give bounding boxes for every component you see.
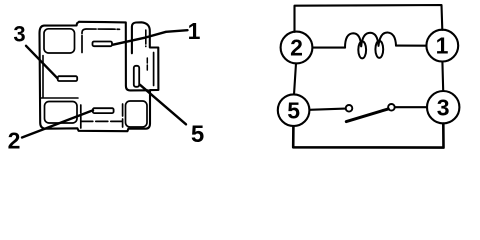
relay left arm bottom wall xyxy=(41,97,79,99)
relay case bottom-right pocket xyxy=(126,101,148,127)
wire circle5 to switch contact xyxy=(310,109,346,110)
svg-text:3: 3 xyxy=(437,94,450,120)
leader line label 2 to pin 2 xyxy=(22,110,93,137)
schematic loop bottom wire xyxy=(293,124,443,148)
schematic right wire circle1 to circle3 xyxy=(441,62,444,92)
leader line label 3 to pin 3 xyxy=(26,46,58,79)
relay bottom arm inner line xyxy=(81,104,123,128)
switch blade xyxy=(346,109,388,122)
svg-text:2: 2 xyxy=(290,35,303,61)
terminal circle 1 xyxy=(426,30,458,62)
wire switch to circle3 xyxy=(395,106,427,108)
relay top tab outline and channel right wall xyxy=(79,22,148,91)
relay coil L1 xyxy=(345,32,396,58)
svg-text:5: 5 xyxy=(191,121,204,148)
pin 3 terminal slot xyxy=(58,76,77,81)
wire coil to circle1 xyxy=(396,45,426,47)
pin 2 terminal slot xyxy=(93,108,114,113)
terminal circle 2 xyxy=(281,32,313,64)
svg-text:3: 3 xyxy=(13,22,25,47)
schematic loop top wire xyxy=(295,5,443,32)
relay left arm inner edge line xyxy=(42,56,44,98)
leader line label 1 to pin 1 xyxy=(113,30,188,45)
switch contact left xyxy=(346,105,353,112)
schematic left wire circle2 to circle5 xyxy=(294,63,296,94)
svg-text:5: 5 xyxy=(287,97,300,123)
relay connector outer case outline xyxy=(40,22,159,131)
pin 1 terminal slot xyxy=(93,42,113,47)
relay case bottom-left pocket xyxy=(45,102,78,124)
leader line label 5 to pin 5 xyxy=(140,85,186,125)
relay case top-left pocket xyxy=(44,29,75,53)
switch contact right xyxy=(388,104,395,111)
terminal circle 5 xyxy=(278,94,310,126)
relay right arm upper inner dash xyxy=(146,58,148,70)
relay top-right bump inner line xyxy=(145,30,147,47)
pin 5 terminal slot xyxy=(134,66,139,87)
relay right arm inner line xyxy=(153,53,155,86)
svg-text:1: 1 xyxy=(188,18,201,44)
svg-text:1: 1 xyxy=(436,33,449,59)
svg-text:2: 2 xyxy=(8,128,21,154)
relay top tab inner outline xyxy=(82,29,120,53)
wire circle2 to coil xyxy=(313,47,345,49)
terminal circle 3 xyxy=(427,91,459,123)
